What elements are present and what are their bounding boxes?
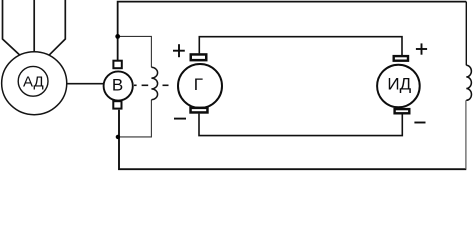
svg-text:АД: АД bbox=[23, 73, 44, 90]
svg-text:ИД: ИД bbox=[387, 74, 411, 93]
svg-text:В: В bbox=[112, 75, 123, 94]
svg-text:Г: Г bbox=[194, 75, 203, 94]
